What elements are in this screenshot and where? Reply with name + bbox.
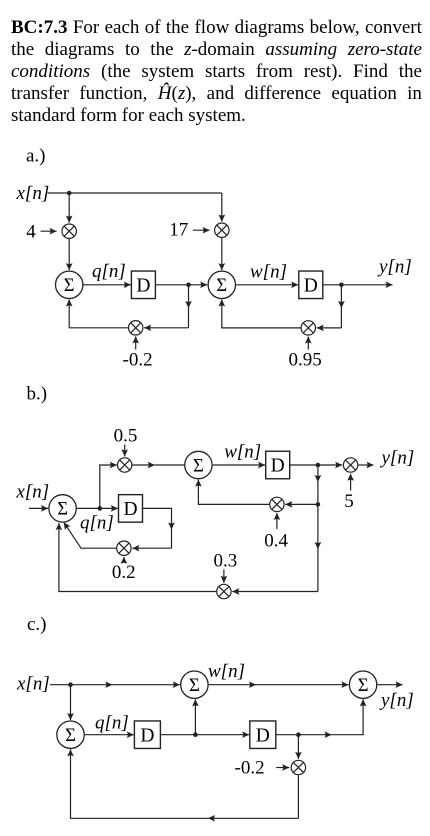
node: q[n] junction — [98, 506, 103, 511]
svg-text:a.): a.) — [26, 146, 46, 167]
wire: x[n] bus into top summer — [112, 684, 179, 686]
svg-text:0.5: 0.5 — [114, 426, 138, 447]
svg-text:w[n]: w[n] — [224, 442, 261, 463]
wire: long drop reaches 0.3 row — [317, 549, 319, 592]
svg-text:-0.2: -0.2 — [235, 758, 265, 779]
multiplier gain 0.95 — [301, 321, 315, 335]
delay D1 (c) — [134, 721, 160, 749]
svg-text:-0.2: -0.2 — [123, 350, 153, 371]
delay D2 (c) — [250, 721, 276, 749]
wire: S1 output to delay D1 — [84, 284, 131, 286]
multiplier gain 0.2 — [117, 541, 131, 555]
svg-text:0.4: 0.4 — [264, 531, 288, 552]
problem statement header — [11, 17, 422, 127]
wire: junction up into top summer — [194, 699, 196, 734]
node: D2 output junction — [339, 283, 344, 288]
svg-text:w[n]: w[n] — [208, 661, 245, 682]
wire: feedback into gain 0.95 multiplier — [317, 327, 342, 329]
wire: drop from D2 junction (mid arrow) — [317, 465, 319, 482]
arrow: 5 label into multiplier — [350, 474, 352, 491]
arrow: -0.2 label into multiplier — [276, 767, 289, 769]
svg-text:Σ: Σ — [193, 456, 204, 476]
wire: gain-5 output to y[n] — [358, 464, 373, 466]
wire: feedback into gain 0.4 multiplier — [285, 503, 318, 505]
summing junction S-right (c) — [349, 671, 376, 698]
svg-text:0.2: 0.2 — [112, 562, 136, 583]
arrow: 4 into multiplier — [41, 230, 57, 232]
wire: D1 output to junction — [160, 734, 195, 736]
wire: branch down into summer S1 (c) — [70, 685, 72, 720]
wire: feedback drop continues — [188, 308, 190, 328]
wire: bottom bus back up into S1 (c) — [71, 749, 209, 818]
node: x[n] branch junction (c) — [68, 682, 73, 687]
svg-text:b.): b.) — [27, 384, 48, 405]
delay D2 (a) — [299, 271, 323, 299]
svg-text:y[n]: y[n] — [379, 690, 414, 711]
svg-text:4: 4 — [26, 222, 36, 243]
wire: 0.2 output diagonal back to S1 (b) — [64, 522, 117, 548]
wire: x[n] bus toward top summer (mid arrow) — [50, 684, 112, 686]
node: 0.4 feedback junction — [316, 502, 321, 507]
svg-text:17: 17 — [169, 220, 188, 241]
svg-text:5: 5 — [344, 491, 354, 512]
svg-text:D: D — [304, 276, 318, 297]
wire: 0.5 output reaches summer S2 — [155, 464, 184, 466]
wire: D2 output to y[n] — [323, 284, 393, 286]
wire: D1 output to summer 2 — [155, 284, 207, 286]
wire: x[n] top bus — [48, 192, 222, 194]
summing junction S2 (a) — [208, 271, 235, 298]
svg-text:0.3: 0.3 — [214, 551, 238, 572]
summing junction S-top (c) — [181, 671, 208, 698]
wire: riser from q[n] junction to 0.5 multiplier — [100, 465, 117, 508]
node: D2 output junction (c) — [296, 732, 301, 737]
svg-text:0.95: 0.95 — [289, 350, 322, 371]
svg-text:Σ: Σ — [358, 676, 369, 696]
wire: bottom bus leftward (mid arrow) — [208, 817, 298, 819]
wire: S1 output to delay D1 (c) — [85, 734, 134, 736]
svg-text:x[n]: x[n] — [16, 674, 50, 695]
svg-text:Σ: Σ — [57, 500, 68, 520]
wire: long drop toward 0.3 row (mid arrow) — [317, 504, 319, 549]
svg-text:w[n]: w[n] — [250, 261, 287, 282]
multiplier gain 0.5 — [118, 458, 132, 472]
svg-text:y[n]: y[n] — [377, 256, 412, 277]
arrow: 0.3 label into multiplier — [223, 570, 225, 583]
arrow: 0.4 label into multiplier — [276, 513, 278, 529]
wire: D1 output drop continues — [171, 530, 173, 549]
wire: 0.95 output back to S2 — [222, 299, 301, 328]
wire: drop into -0.2 multiplier — [297, 735, 299, 759]
wire: 0.3 output back to S1 (b) — [59, 523, 216, 591]
arrow: 0.95 label into multiplier — [307, 337, 309, 350]
node: D1 output junction — [186, 283, 191, 288]
multiplier gain 0.4 — [270, 497, 284, 511]
svg-text:q[n]: q[n] — [95, 713, 129, 734]
svg-text:Σ: Σ — [65, 726, 76, 746]
svg-text:D: D — [140, 725, 154, 746]
summing junction S1 (c) — [57, 721, 84, 748]
wire: D2 output to junction (c) — [276, 734, 299, 736]
multiplier gain 17 — [215, 223, 229, 237]
node: x[n] branch junction — [67, 191, 72, 196]
wire: feedback into gain -0.2 multiplier — [144, 327, 188, 329]
arrow: 0.5 label into multiplier — [124, 445, 126, 457]
summing junction S1 (b) — [49, 495, 76, 522]
svg-text:y[n]: y[n] — [380, 448, 415, 469]
arrow: 0.2 label into multiplier — [123, 557, 125, 562]
wire: branch down into gain-4 multiplier — [68, 193, 70, 223]
wire: feedback drop from D2 junction — [340, 285, 342, 308]
svg-text:Σ: Σ — [216, 276, 227, 296]
wire: 0.5 output toward summer S2 (mid arrow) — [132, 464, 155, 466]
wire: drop continues to 0.4 row — [317, 482, 319, 504]
svg-text:Σ: Σ — [189, 676, 200, 696]
wire: right summer output to y[n] — [377, 684, 402, 686]
node: D1 output junction (c) — [193, 732, 198, 737]
summing junction S2 (b) — [185, 451, 212, 478]
wire: -0.2 output back to S1 — [69, 299, 128, 327]
arrow: -0.2 label into multiplier — [135, 336, 137, 349]
svg-text:q[n]: q[n] — [80, 513, 114, 534]
svg-text:c.): c.) — [27, 614, 47, 635]
wire: S1 output to delay D1 (b) — [77, 507, 118, 509]
svg-text:D: D — [271, 456, 285, 477]
summing junction S1 (a) — [55, 271, 82, 298]
wire: feedback drop from D1 junction — [188, 285, 190, 308]
multiplier gain -0.2 — [129, 321, 143, 335]
node: D2 output junction (b) — [316, 463, 321, 468]
multiplier gain -0.2 (c) — [291, 760, 305, 774]
svg-text:x[n]: x[n] — [15, 482, 49, 503]
wire: into gain 0.3 multiplier — [232, 591, 318, 593]
wire: junction right into delay D2 — [195, 734, 249, 736]
wire: gain-4 output into summer 1 — [68, 239, 70, 270]
delay D1 (a) — [131, 271, 155, 299]
arrow: 17 into multiplier — [193, 229, 210, 231]
wire: feedback drop continues (right) — [340, 308, 342, 328]
wire: S2 output to delay D2 — [236, 284, 298, 286]
delay D2 (b) — [266, 451, 290, 479]
svg-text:D: D — [136, 276, 150, 297]
wire: x[n] into summer S1 (b) — [29, 507, 48, 509]
svg-text:q[n]: q[n] — [92, 261, 126, 282]
multiplier gain 5 — [343, 458, 357, 472]
wire: branch down into gain-17 multiplier — [221, 193, 223, 222]
multiplier gain 0.3 — [217, 584, 231, 598]
svg-text:D: D — [123, 499, 137, 520]
wire: -0.2 output down to bottom bus — [297, 775, 299, 818]
svg-text:D: D — [256, 725, 270, 746]
wire: w[n] toward right summer (mid arrow) — [209, 684, 256, 686]
svg-text:x[n]: x[n] — [16, 183, 50, 204]
wire: into gain 0.2 multiplier — [132, 547, 171, 549]
delay D1 (b) — [119, 495, 143, 523]
wire: D2 junction toward right summer (mid arrow) — [298, 734, 331, 736]
multiplier gain 4 — [62, 224, 76, 238]
wire: D1 output drop (mid arrow) — [143, 508, 172, 529]
wire: 0.4 output back up into S2 — [198, 480, 269, 505]
wire: gain-17 output into summer 2 — [221, 238, 223, 270]
wire: D2 output into gain-5 multiplier — [290, 464, 343, 466]
wire: w[n] into right summer — [256, 684, 349, 686]
wire: up into right summer — [332, 699, 364, 734]
wire: S2 output to delay D2 (b) — [213, 464, 265, 466]
svg-text:Σ: Σ — [64, 276, 75, 296]
